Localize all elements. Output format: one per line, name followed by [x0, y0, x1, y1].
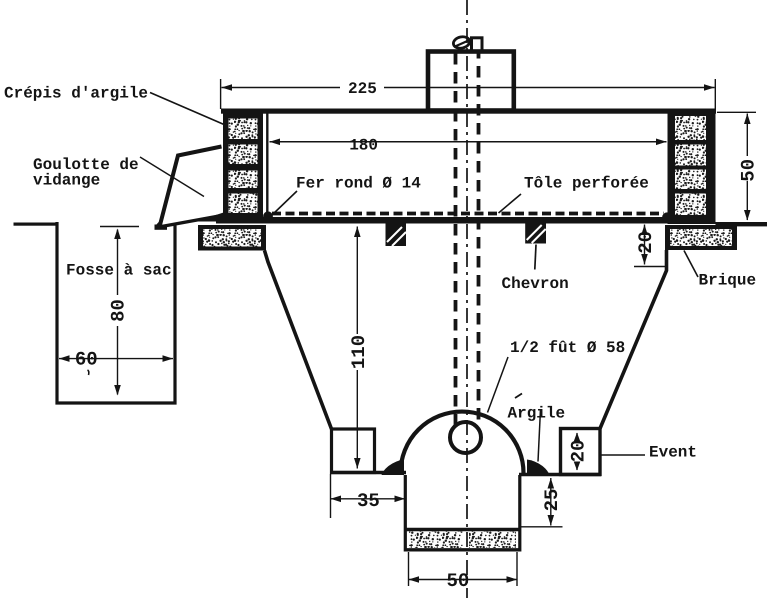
svg-text:20: 20: [635, 231, 657, 254]
svg-text:80: 80: [107, 299, 129, 322]
svg-text:Chevron: Chevron: [502, 275, 569, 293]
svg-text:25: 25: [541, 489, 563, 512]
svg-text:Tôle perforée: Tôle perforée: [524, 175, 649, 193]
svg-text:vidange: vidange: [33, 172, 100, 190]
svg-text:180: 180: [349, 136, 378, 154]
svg-text:225: 225: [348, 80, 377, 98]
svg-text:Fosse à sac: Fosse à sac: [66, 262, 172, 280]
svg-text:Crépis d'argile: Crépis d'argile: [4, 85, 148, 103]
svg-text:60: 60: [75, 349, 98, 371]
svg-text:50: 50: [447, 570, 470, 592]
svg-text:110: 110: [348, 335, 370, 369]
svg-text:Brique: Brique: [699, 272, 757, 290]
svg-text:35: 35: [357, 490, 380, 512]
svg-text:20: 20: [567, 440, 589, 463]
svg-text:1/2 fût Ø 58: 1/2 fût Ø 58: [510, 339, 625, 357]
svg-text:Event: Event: [649, 444, 697, 462]
svg-text:Fer rond Ø 14: Fer rond Ø 14: [296, 175, 421, 193]
svg-text:Argile: Argile: [508, 405, 566, 423]
svg-text:50: 50: [738, 159, 760, 182]
